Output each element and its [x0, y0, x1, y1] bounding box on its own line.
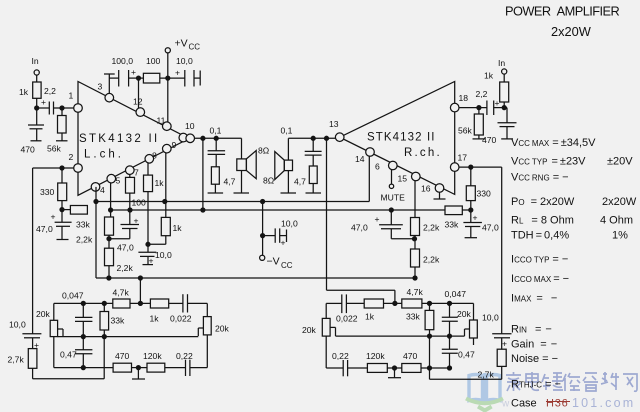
capacitor 0,22 (right tone bottom): [326, 351, 367, 376]
svg-text:2: 2: [69, 152, 74, 162]
svg-text:In: In: [32, 56, 39, 66]
wire right tone top rail: [326, 303, 342, 318]
capacitor 10,0 (right line input): [482, 313, 512, 350]
svg-text:2,2: 2,2: [476, 89, 488, 99]
svg-text:8Ω: 8Ω: [258, 146, 270, 156]
svg-text:2,2: 2,2: [44, 86, 56, 96]
wire pin15 drop: [414, 181, 416, 218]
pin 12: [133, 97, 145, 117]
svg-text:2,2k: 2,2k: [117, 263, 134, 273]
svg-text:R.ch.: R.ch.: [404, 147, 442, 159]
svg-text:33k: 33k: [445, 220, 460, 230]
svg-text:330: 330: [477, 189, 492, 199]
resistor 1k (left input): [19, 82, 41, 108]
svg-text:Noise=−: Noise=−: [511, 353, 558, 365]
svg-text:4 Ohm: 4 Ohm: [600, 215, 633, 227]
svg-text:33k: 33k: [76, 220, 91, 230]
capacitor 47,0 (right feedback to gnd): [463, 213, 499, 238]
svg-text:2,7k: 2,7k: [8, 355, 25, 365]
svg-text:4: 4: [100, 185, 105, 195]
ground (left tone): [132, 368, 145, 379]
svg-text:56k: 56k: [47, 144, 62, 154]
svg-text:+: +: [51, 212, 56, 222]
svg-text:13: 13: [329, 119, 339, 129]
capacitor 100,0 (Vcc ripple): [112, 56, 144, 87]
capacitor 0,22 (left tone bottom): [176, 351, 207, 376]
svg-text:CC: CC: [281, 261, 293, 270]
svg-text:20k: 20k: [457, 309, 472, 319]
capacitor 0,47 (left tone): [60, 337, 92, 370]
watermark url + Case H36 value: [501, 396, 635, 410]
pin 1: [69, 91, 83, 113]
svg-text:1: 1: [69, 91, 74, 101]
wire right output to pin 13: [288, 136, 335, 140]
resistor 2,7k (right line input): [478, 349, 507, 379]
capacitor 10,0 (Vcc bypass): [175, 56, 200, 87]
resistor 2,2k (left chain lower): [105, 248, 134, 278]
resistor 56k (left input): [47, 108, 68, 154]
svg-text:2,2k: 2,2k: [76, 235, 93, 245]
wire rail1 -Vcc rail: [94, 198, 369, 208]
pin 8: [145, 151, 157, 164]
svg-text:15: 15: [398, 174, 408, 184]
svg-text:STK4132 II: STK4132 II: [79, 133, 160, 145]
capacitor 470 (right input to gnd): [482, 108, 517, 145]
ground pin 16: [434, 192, 446, 199]
resistor 330 (right feedback): [466, 167, 491, 222]
svg-text:47,0: 47,0: [351, 223, 368, 233]
svg-text:H36: H36: [546, 398, 569, 410]
svg-text:100: 100: [132, 198, 147, 208]
pin 14: [355, 148, 374, 164]
svg-text:+: +: [495, 98, 500, 108]
capacitor 0,1 (right Zobel): [281, 126, 322, 167]
watermark chinese text (vector strokes): [506, 372, 637, 391]
node -Vcc terminal with 10,0 cap: [260, 202, 293, 271]
potentiometer 20k (left tone, left): [36, 309, 63, 368]
wire rail2 feedback rail: [109, 208, 445, 212]
resistor 33k (left tone vertical): [100, 303, 125, 336]
svg-text:0,22: 0,22: [176, 351, 193, 361]
wire right feedback drop: [327, 138, 395, 303]
pin 18: [450, 93, 468, 112]
resistor pin7 (left, unmarked): [126, 175, 135, 211]
svg-text:4,7: 4,7: [294, 177, 306, 187]
svg-text:1k: 1k: [173, 223, 183, 233]
wire pin12 riser: [138, 78, 140, 108]
svg-text:330: 330: [40, 187, 55, 197]
svg-text:w: w: [501, 399, 510, 410]
svg-text:2x20W: 2x20W: [602, 196, 637, 208]
svg-text:+V: +V: [175, 38, 188, 50]
node In (right input terminal): [498, 58, 507, 82]
svg-text:47,0: 47,0: [36, 224, 53, 234]
svg-text:47,0: 47,0: [482, 223, 499, 233]
resistor 4,7 (left Zobel): [208, 167, 236, 193]
potentiometer 20k (left tone, right): [198, 317, 229, 368]
capacitor 10,0 (-Vcc bypass): [263, 219, 298, 248]
svg-text:20k: 20k: [302, 325, 317, 335]
resistor 33k (right feedback horizontal): [445, 206, 471, 230]
svg-text:+: +: [502, 339, 507, 349]
svg-text:120k: 120k: [143, 351, 162, 361]
svg-text:2,2k: 2,2k: [423, 255, 440, 265]
svg-text:+: +: [281, 238, 286, 248]
pin 4: [91, 183, 105, 195]
svg-text:470: 470: [482, 135, 497, 145]
svg-text:8Ω: 8Ω: [263, 176, 275, 186]
svg-text:9: 9: [172, 140, 177, 150]
pin 11: [157, 116, 172, 131]
svg-text:±20V: ±20V: [607, 156, 633, 168]
capacitor 2,2 (right input coupling): [459, 89, 507, 115]
capacitor 10,0 (left line input): [9, 320, 41, 351]
wire left tone input riser (4,7k/1k node to rail3): [139, 278, 141, 303]
svg-text:56k: 56k: [458, 126, 473, 136]
svg-text:470: 470: [403, 351, 418, 361]
svg-text:0,047: 0,047: [62, 291, 84, 301]
op-amp U1 STK4132 II L.ch triangle: [78, 82, 189, 196]
watermark book icon: [466, 373, 503, 411]
pin 13: [329, 119, 344, 142]
svg-text:CC: CC: [189, 43, 201, 52]
svg-text:10,0: 10,0: [155, 250, 172, 260]
svg-text:10: 10: [185, 121, 195, 131]
resistor 4,7 (right Zobel): [294, 166, 321, 193]
wire pin9 drop: [165, 153, 167, 217]
svg-text:470: 470: [115, 351, 130, 361]
capacitor 0,047 (right tone): [442, 289, 466, 336]
capacitor 470 (left input to gnd): [21, 108, 45, 155]
svg-text:10,0: 10,0: [176, 56, 193, 66]
resistor 2,7k (left line input): [8, 349, 37, 379]
svg-text:+: +: [131, 67, 136, 77]
svg-text:33k: 33k: [406, 312, 421, 322]
capacitor 0,022 (right tone top): [336, 294, 364, 323]
resistor 120k (right tone bottom): [366, 351, 402, 372]
svg-text:7: 7: [134, 168, 139, 178]
pin 3: [98, 82, 114, 102]
svg-text:−V: −V: [267, 256, 280, 268]
svg-text:POWER AMPLIFIER: POWER AMPLIFIER: [505, 4, 621, 19]
resistor 1k (left feedback lower): [148, 217, 182, 244]
resistor 120k (left tone bottom): [143, 351, 186, 372]
capacitor 0,022 (left tone top): [170, 294, 207, 323]
pin 17: [450, 153, 467, 172]
pin 9: [163, 140, 177, 153]
svg-text:3: 3: [98, 82, 103, 92]
svg-text:MUTE: MUTE: [381, 193, 406, 203]
svg-text:2x20W: 2x20W: [551, 24, 592, 39]
resistor 2,2k (left chain upper): [76, 217, 114, 248]
pin 10: [179, 121, 195, 143]
resistor 2,2k (right chain lower): [411, 249, 440, 280]
resistor 470 (left tone bottom): [113, 351, 147, 372]
svg-text:+: +: [473, 213, 478, 223]
wire pin14 drop: [368, 156, 370, 201]
svg-text:1k: 1k: [150, 314, 160, 324]
pin 2: [69, 152, 83, 172]
svg-text:16: 16: [421, 184, 431, 194]
svg-text:+: +: [175, 68, 180, 78]
wire pin17 output line: [459, 165, 502, 334]
svg-text:100: 100: [146, 56, 161, 66]
resistor 33k (right tone vertical): [406, 303, 434, 336]
svg-text:1%: 1%: [612, 230, 628, 242]
speaker left 8 ohm: [234, 138, 270, 193]
svg-text:18: 18: [459, 93, 469, 103]
resistor 1k (right tone top): [364, 299, 402, 322]
resistor 4,7k (left tone top): [113, 288, 151, 309]
svg-text:Gain=−: Gain=−: [511, 339, 557, 351]
svg-text:0,22: 0,22: [332, 351, 349, 361]
capacitor 0,1 (left Zobel): [208, 126, 226, 167]
svg-text:120k: 120k: [366, 351, 385, 361]
resistor 33k (left feedback horizontal): [62, 206, 91, 230]
node MUTE stub: [381, 170, 406, 203]
svg-text:In: In: [498, 58, 505, 68]
svg-text:17: 17: [458, 153, 468, 163]
svg-text:4,7k: 4,7k: [407, 287, 424, 297]
svg-text:L.ch.: L.ch.: [84, 149, 124, 161]
svg-text:0,1: 0,1: [210, 126, 222, 136]
svg-text:0,47: 0,47: [60, 350, 77, 360]
pin 7: [126, 166, 140, 178]
svg-text:5: 5: [116, 176, 121, 186]
svg-text:0,022: 0,022: [170, 314, 192, 324]
node In (left input terminal): [32, 56, 40, 82]
resistor 2,2k (right chain upper): [411, 218, 440, 250]
resistor 1k (right input): [484, 71, 509, 108]
op-amp U2 STK4132 II R.ch triangle: [340, 82, 455, 195]
wire pin5 drop to 2,2k chain: [110, 183, 112, 217]
svg-text:4,7: 4,7: [224, 177, 236, 187]
svg-text:+: +: [41, 97, 46, 107]
svg-text:PO=2x20W: PO=2x20W: [511, 196, 575, 208]
svg-text:0,1: 0,1: [281, 126, 293, 136]
speaker right 8 ohm: [263, 138, 296, 193]
wire left tone top rail: [54, 301, 113, 320]
wire right tone mid rail: [336, 334, 465, 338]
svg-text:TDH=0,4%: TDH=0,4%: [511, 230, 569, 242]
wire pin2 line to left column: [33, 166, 74, 334]
svg-text:0,047: 0,047: [445, 289, 467, 299]
title POWER AMPLIFIER 2x20W: [505, 4, 621, 40]
svg-text:1k: 1k: [484, 71, 494, 81]
svg-text:1k: 1k: [155, 178, 165, 188]
svg-text:100,0: 100,0: [112, 56, 134, 66]
capacitor 0,47 (right tone): [442, 336, 475, 370]
svg-text:0,022: 0,022: [336, 314, 358, 324]
svg-text:10,0: 10,0: [9, 320, 26, 330]
svg-text:1k: 1k: [365, 312, 375, 322]
svg-text:10,0: 10,0: [482, 313, 499, 323]
svg-text:33k: 33k: [111, 316, 126, 326]
svg-text:10,0: 10,0: [281, 219, 298, 229]
resistor 470 (right tone bottom): [402, 351, 450, 372]
svg-text:14: 14: [355, 154, 365, 164]
svg-text:101.com: 101.com: [572, 396, 635, 410]
node +Vcc terminal: [165, 38, 200, 79]
specs text column: [511, 137, 637, 410]
svg-text:20k: 20k: [36, 309, 51, 319]
wire rail3 bottom link rail: [96, 187, 416, 280]
capacitor 0,047 (left tone): [62, 291, 92, 337]
svg-text:6: 6: [375, 162, 380, 172]
svg-text:470: 470: [21, 145, 36, 155]
potentiometer 20k (right tone, left): [302, 318, 336, 368]
wire left tone bottom rail: [54, 367, 113, 369]
potentiometer 20k (right tone, right): [457, 303, 477, 345]
capacitor 10,0 (left feedback to gnd): [138, 244, 172, 265]
resistor 100 (Vcc filter): [143, 56, 184, 83]
wire left tone mid rail: [58, 335, 199, 339]
wire left bottom link: [33, 337, 105, 379]
svg-text:+: +: [375, 214, 380, 224]
wire right tone riser and bottom link: [428, 336, 502, 379]
svg-text:0,47: 0,47: [458, 350, 475, 360]
svg-text:STK4132 II: STK4132 II: [367, 132, 436, 144]
ground (right tone): [388, 368, 401, 378]
svg-text:VCCMAX=±34,5V: VCCMAX=±34,5V: [511, 137, 596, 149]
wire left output from pin 10: [195, 136, 242, 140]
svg-text:RL=8 Ohm: RL=8 Ohm: [511, 215, 574, 227]
svg-text:2,2k: 2,2k: [423, 223, 440, 233]
svg-text:4,7k: 4,7k: [113, 288, 130, 298]
pin 6: [375, 161, 397, 171]
svg-text:2,7k: 2,7k: [478, 370, 495, 380]
resistor 4,7k (right tone top): [402, 287, 474, 308]
wire left feedback drop: [202, 138, 204, 210]
capacitor 47,0 (right feedback block): [351, 210, 415, 239]
resistor 330 (left feedback): [40, 168, 67, 222]
svg-text:Case: Case: [511, 398, 537, 410]
capacitor 47,0 (left feedback to gnd): [36, 212, 72, 240]
pin 5: [107, 174, 121, 185]
pin 16: [421, 184, 444, 194]
capacitor 47,0 (left feedback block): [109, 210, 139, 253]
svg-text:47,0: 47,0: [117, 243, 134, 253]
svg-text:20k: 20k: [215, 324, 230, 334]
wire pin11 riser: [167, 78, 169, 122]
capacitor 2,2 (left input coupling): [35, 86, 74, 115]
resistor 1k (left tone top): [150, 299, 183, 324]
node pin3 top stub with T terminal: [104, 74, 119, 93]
resistor 1k (pin8 left): [144, 163, 165, 246]
svg-text:1k: 1k: [19, 87, 29, 97]
pin 15: [398, 172, 421, 183]
resistor 56k (right input): [458, 108, 486, 139]
